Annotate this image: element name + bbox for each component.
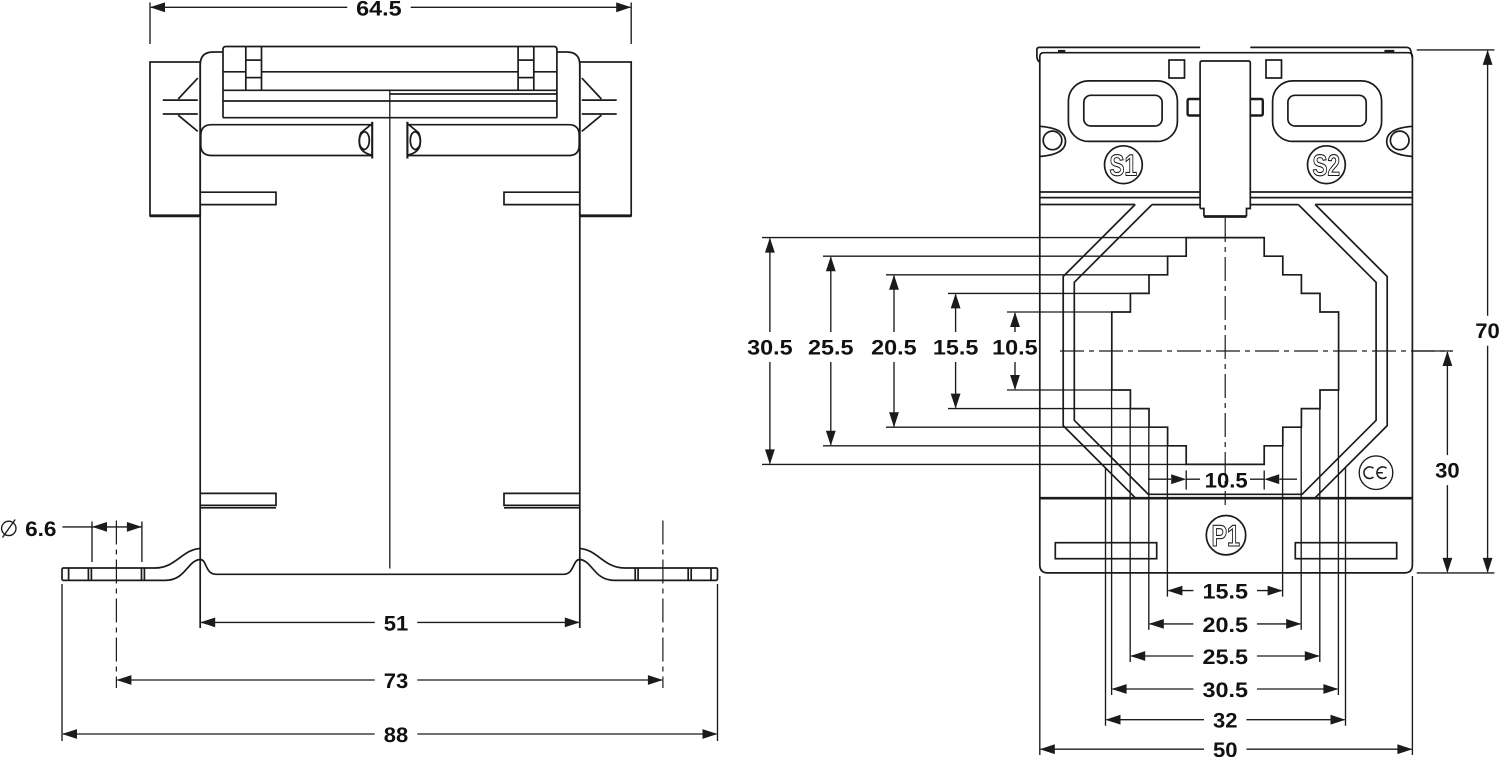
diameter 6.6 dimension line: [92, 522, 142, 532]
right wing thick bottom edge: [580, 214, 631, 217]
primary conductor bar: [1200, 61, 1250, 217]
svg-text:70: 70: [1475, 320, 1500, 343]
svg-text:50: 50: [1213, 739, 1238, 757]
dimension 64.5 extension line left: [149, 3, 151, 45]
upper right tab: [504, 192, 580, 204]
dimension 10.5 vertical: [992, 312, 1038, 390]
strip mark right: [1384, 50, 1394, 53]
svg-text:P1: P1: [1212, 520, 1241, 553]
CE mark: [1359, 456, 1393, 490]
P1 label: [1206, 516, 1245, 555]
left wing spring clip: [163, 78, 198, 131]
svg-text:10.5: 10.5: [1205, 469, 1248, 492]
right foot hole edges: [635, 568, 691, 580]
centre line left view: [389, 90, 391, 568]
svg-text:S1: S1: [1110, 150, 1138, 183]
body outline left view: [200, 52, 580, 628]
clamp side verticals: [223, 90, 557, 117]
dimension 30.5 vertical: [747, 238, 793, 465]
vertical centreline: [1224, 218, 1226, 505]
clamp half edge line: [390, 93, 557, 95]
S1 terminal outer: [1068, 81, 1177, 141]
dimension 15.5 vertical: [933, 293, 979, 408]
diameter 6.6 text: [25, 518, 56, 541]
left hole centreline: [115, 521, 117, 689]
octagon ring outer: [1063, 205, 1387, 498]
dimension 88: [62, 724, 718, 747]
dimension 20.5 horizontal: [1149, 614, 1301, 637]
upper left tab: [200, 192, 276, 204]
dimension 70: [1475, 50, 1500, 573]
clamp lower edge line 2: [223, 117, 557, 119]
svg-text:30: 30: [1435, 460, 1460, 483]
face line 1: [1040, 191, 1413, 193]
stepped window opening: [1112, 238, 1339, 465]
left side screw: [1040, 126, 1066, 156]
dimension 64.5: [150, 0, 631, 20]
dimension 25.5 horizontal: [1130, 646, 1320, 669]
bar left tab: [1188, 99, 1201, 116]
dimension 51 extension lines: [200, 583, 580, 628]
body bottom edge: [200, 560, 580, 575]
dimension 32 extension lines: [1106, 468, 1346, 726]
dimension 30.5 vertical extension lines: [762, 238, 1186, 465]
dimension 10.5 vertical extension lines: [1007, 312, 1112, 390]
bottom left slot: [1055, 543, 1156, 559]
right clip tower: [518, 47, 534, 91]
svg-text:15.5: 15.5: [933, 337, 979, 360]
right band slot pocket: [407, 124, 420, 156]
svg-text:20.5: 20.5: [871, 337, 917, 360]
bottom ledge line: [1040, 497, 1413, 500]
left wing block: [150, 62, 200, 216]
lower right tab: [504, 493, 580, 507]
dimension 30.5 extension lines: [1112, 390, 1339, 695]
bar right tab: [1250, 99, 1263, 116]
right hole centreline: [662, 521, 664, 689]
right wing spring clip: [582, 78, 617, 131]
svg-text:10.5: 10.5: [992, 337, 1038, 360]
dimension 20.5 extension lines: [1149, 427, 1301, 630]
dimension 50 extension lines: [1040, 576, 1413, 755]
face line 2: [1040, 197, 1413, 199]
diameter 6.6 leader: [62, 526, 92, 528]
clamp lower edge line: [223, 100, 557, 102]
svg-text:51: 51: [384, 612, 409, 635]
dimension 15.5 extension lines: [1167, 446, 1282, 597]
front body outline: [1040, 53, 1413, 573]
left clip tower: [246, 47, 262, 91]
diameter 6.6 extension lines: [92, 522, 142, 563]
dimension 15.5 vertical extension lines: [948, 293, 1130, 408]
dimension 30 extension line: [1412, 350, 1452, 352]
left wing thick bottom edge: [150, 214, 200, 217]
svg-text:64.5: 64.5: [356, 0, 402, 20]
dimension 20.5 vertical: [871, 275, 917, 427]
dimension 10.5 window: [1148, 469, 1297, 492]
svg-text:88: 88: [384, 724, 409, 747]
svg-text:73: 73: [384, 670, 409, 693]
left band slot pocket: [359, 124, 372, 156]
svg-text:25.5: 25.5: [808, 337, 854, 360]
S1 label: [1105, 146, 1143, 184]
dimension 25.5 vertical extension lines: [823, 256, 1167, 446]
svg-text:30.5: 30.5: [747, 337, 793, 360]
dimension 32 horizontal: [1106, 710, 1346, 733]
dimension 70 extension lines: [1417, 50, 1495, 573]
bottom right slot: [1295, 543, 1396, 559]
left foot: [62, 549, 200, 581]
strip mark left: [1058, 50, 1065, 53]
tape band right part: [407, 125, 579, 156]
S1 terminal inner: [1084, 95, 1162, 126]
svg-text:15.5: 15.5: [1203, 581, 1249, 604]
primary bar bottom edge: [1204, 215, 1247, 218]
left screw square: [1169, 60, 1185, 78]
dimension 30.5 horizontal: [1112, 679, 1339, 702]
S2 label: [1308, 146, 1346, 184]
svg-text:30.5: 30.5: [1203, 679, 1249, 702]
right foot: [580, 549, 718, 581]
dimension 88 extension lines: [62, 584, 718, 741]
top strip: [1037, 47, 1412, 62]
svg-text:S2: S2: [1313, 150, 1341, 183]
right side screw: [1387, 126, 1413, 156]
left band slot oval: [359, 132, 369, 150]
octagon ring inner: [1074, 205, 1376, 495]
dimension 15.5 horizontal: [1167, 581, 1282, 604]
clamp mid line: [223, 71, 557, 73]
dimension 64.5 extension line right: [630, 3, 632, 45]
right screw square: [1266, 60, 1282, 78]
S2 terminal outer: [1273, 81, 1382, 141]
S2 terminal inner: [1288, 95, 1366, 126]
right band slot oval: [410, 132, 420, 150]
dimension 25.5 vertical: [808, 256, 854, 446]
clamp bottom line: [223, 89, 557, 91]
top clamp bar: [223, 47, 557, 91]
dimension 10.5 window extension lines: [1186, 470, 1264, 489]
dimension 50: [1040, 739, 1413, 757]
dimension 25.5 extension lines: [1130, 409, 1320, 662]
dimension 51: [200, 612, 580, 635]
lower left tab: [200, 493, 276, 507]
left foot hole edges: [88, 568, 144, 580]
svg-text:20.5: 20.5: [1203, 614, 1249, 637]
dimension 73: [116, 670, 663, 693]
dimension 30: [1435, 351, 1460, 573]
svg-text:32: 32: [1213, 710, 1238, 733]
window ledge line: [1040, 204, 1413, 206]
horizontal centreline: [1060, 350, 1453, 352]
dimension 20.5 vertical extension lines: [886, 275, 1149, 427]
diameter symbol: [2, 520, 16, 538]
svg-text:6.6: 6.6: [25, 518, 56, 541]
right wing block: [580, 62, 631, 216]
svg-text:25.5: 25.5: [1203, 646, 1249, 669]
left band slot edge: [371, 122, 373, 159]
right band slot edge: [406, 122, 408, 159]
tape band left part: [201, 125, 372, 156]
